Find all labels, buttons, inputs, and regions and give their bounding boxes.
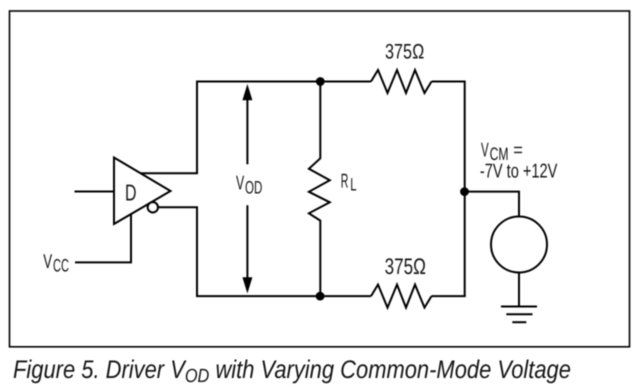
label VOD (236, 173, 262, 198)
node: bottom rail / RL junction (316, 292, 325, 301)
wire: source to ground (518, 273, 520, 307)
ground (501, 307, 537, 323)
driver D (triangle) (114, 158, 171, 225)
svg-text:V: V (43, 251, 52, 273)
svg-text:-7V to +12V: -7V to +12V (480, 161, 558, 183)
node: right rail / VCM source junction (460, 187, 469, 196)
svg-text:Figure 5. Driver VOD with Vary: Figure 5. Driver VOD with Varying Common… (13, 356, 571, 387)
label 375ohm (bottom) (385, 254, 426, 279)
svg-text:Ω: Ω (412, 41, 424, 64)
wire: top rail right segment and right rail down (432, 82, 465, 297)
svg-text:Ω: Ω (413, 254, 426, 279)
svg-text:D: D (125, 180, 137, 206)
wire: inverting output from bubble down to bottom rail (158, 207, 197, 296)
resistor R2 375ohm (bottom) (371, 285, 432, 308)
wire: top rail left segment (196, 81, 371, 83)
svg-text:CC: CC (53, 256, 69, 276)
svg-text:V: V (236, 173, 245, 195)
label 375ohm (top) (385, 41, 424, 64)
svg-text:OD: OD (245, 178, 262, 198)
resistor RL (vertical) with branch wires (309, 82, 330, 297)
svg-text:V: V (481, 140, 489, 162)
svg-text:375: 375 (385, 254, 414, 279)
wire: VCM source branch (465, 192, 520, 217)
node: top rail / RL junction (316, 77, 325, 86)
svg-text:L: L (350, 174, 356, 194)
svg-text:=: = (513, 140, 523, 162)
resistor R1 375ohm (top) (371, 70, 432, 93)
svg-text:375: 375 (385, 41, 412, 64)
wire: non-inverting output up to top rail (141, 82, 197, 174)
wire: VCC supply (75, 214, 131, 263)
label VCC (43, 251, 69, 275)
wire: bottom rail left segment (196, 295, 371, 297)
voltage source VCM (circle) (491, 217, 547, 273)
inversion bubble on driver inverting output (148, 202, 158, 212)
svg-text:R: R (341, 170, 349, 192)
wire: bottom rail right segment (432, 295, 466, 297)
label VCM = -7V to +12V (480, 140, 558, 183)
wire: driver input (75, 191, 114, 193)
label RL (341, 170, 357, 194)
VOD measurement arrow (double headed) (242, 84, 252, 294)
